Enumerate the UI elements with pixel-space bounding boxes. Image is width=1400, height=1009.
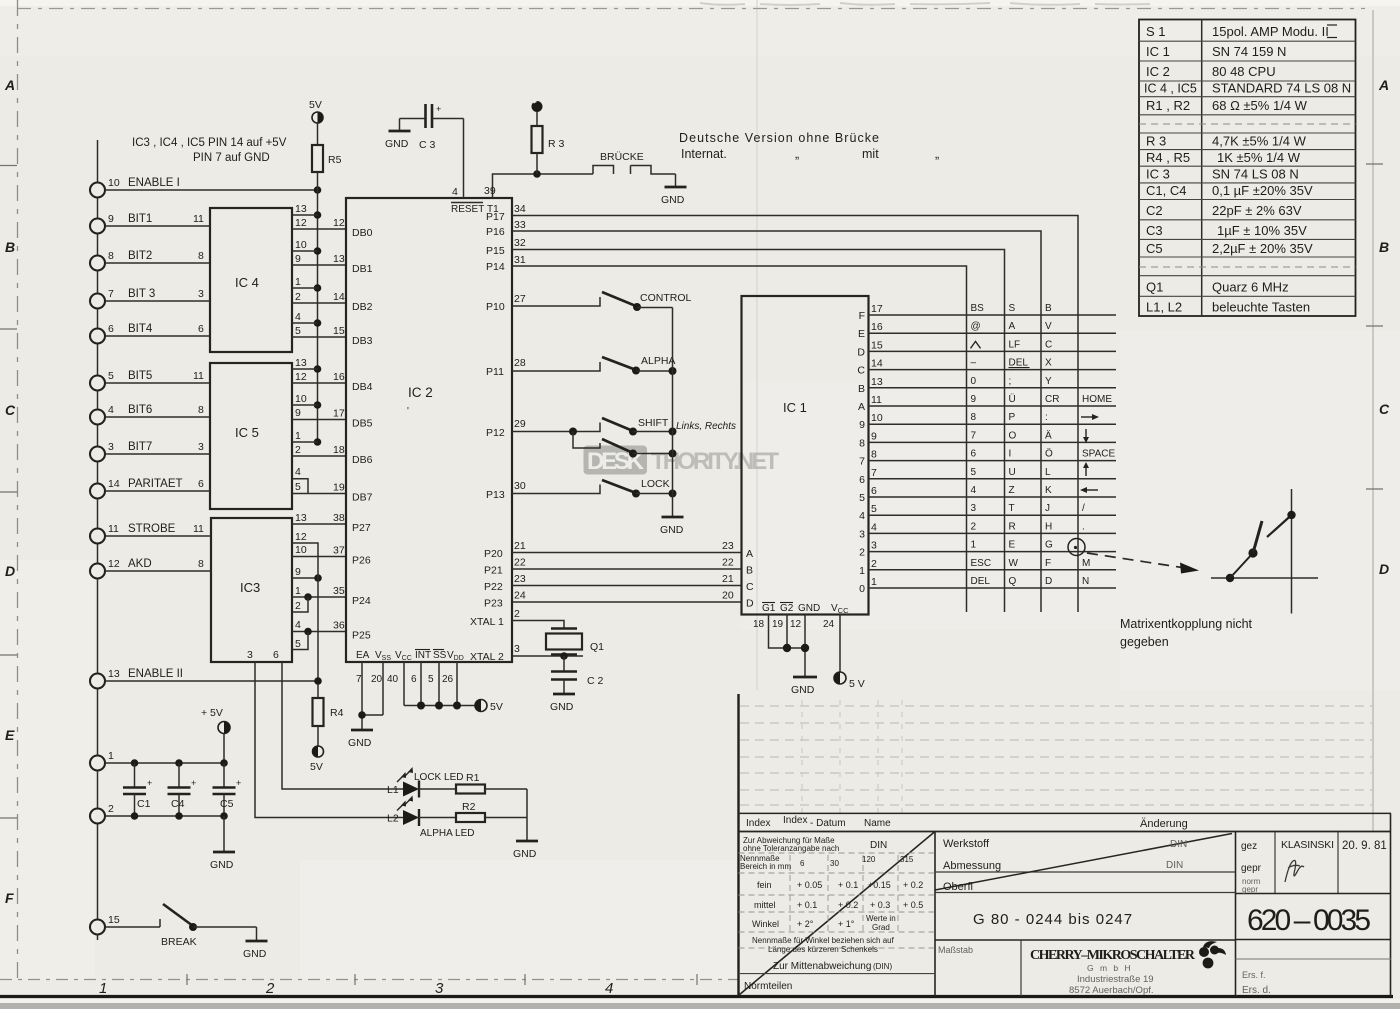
- svg-text:1: 1: [971, 540, 977, 551]
- right border faint line: [1372, 10, 1374, 832]
- ground below C5: [210, 816, 235, 871]
- svg-text:V: V: [1045, 321, 1052, 332]
- wire BIT7 to IC5 pin 3: [105, 441, 210, 454]
- part number 620-0035: [1247, 904, 1371, 937]
- svg-text:BIT1: BIT1: [128, 213, 152, 225]
- svg-text:24: 24: [514, 590, 526, 602]
- svg-text:S: S: [1009, 303, 1016, 314]
- ground after bruecke: [661, 174, 687, 206]
- svg-text:': ': [407, 406, 409, 417]
- svg-text:Y: Y: [1045, 376, 1052, 387]
- svg-text:BIT4: BIT4: [128, 323, 153, 335]
- svg-text:P16: P16: [486, 226, 505, 238]
- svg-text:8: 8: [198, 404, 204, 416]
- wire DB4: [292, 371, 346, 383]
- svg-text:8: 8: [198, 250, 204, 262]
- wire P14 to matrix col1: [486, 254, 967, 612]
- svg-text:1: 1: [295, 430, 301, 442]
- svg-text:6: 6: [871, 485, 877, 497]
- svg-text:1: 1: [871, 576, 877, 588]
- bruecke jumper: [593, 151, 676, 174]
- scanner edge strip: [0, 999, 1400, 1003]
- wire BIT5 to IC5 pin 11: [105, 370, 210, 383]
- svg-text:9: 9: [295, 253, 301, 265]
- faint top smudges: [700, 3, 1150, 5]
- wire BIT4 to IC4 pin 6: [105, 323, 210, 336]
- svg-text:Q1: Q1: [590, 641, 604, 653]
- svg-text:6: 6: [108, 323, 114, 335]
- wire BIT3 to IC4 pin 3: [105, 288, 210, 301]
- svg-text:Ö: Ö: [1045, 448, 1053, 460]
- svg-text:20: 20: [371, 674, 383, 685]
- ground below IC1: [791, 677, 817, 696]
- svg-text:GND: GND: [550, 701, 574, 713]
- svg-text:A: A: [1378, 77, 1389, 93]
- svg-text:3: 3: [198, 288, 204, 300]
- parts table: [1139, 20, 1356, 317]
- svg-text:C: C: [1379, 401, 1390, 417]
- svg-text:DIN: DIN: [1166, 860, 1183, 871]
- svg-text:C: C: [1045, 339, 1052, 350]
- wire P15 to matrix col2: [486, 237, 1005, 612]
- svg-text:IC 4: IC 4: [235, 275, 259, 290]
- svg-text:9: 9: [108, 213, 114, 225]
- svg-text:ENABLE II: ENABLE II: [128, 668, 183, 680]
- svg-text:8572 Auerbach/Opf.: 8572 Auerbach/Opf.: [1069, 985, 1154, 996]
- svg-text:23: 23: [514, 573, 526, 585]
- svg-text:14: 14: [871, 358, 883, 370]
- 5V terminal below R4: [310, 746, 324, 773]
- svg-text:P15: P15: [486, 245, 505, 257]
- svg-text:Änderung: Änderung: [1140, 818, 1188, 830]
- shift switch left: [486, 417, 677, 439]
- IC2 reset label: [451, 203, 499, 216]
- svg-text:L1, L2: L1, L2: [1146, 300, 1182, 315]
- svg-text:GND: GND: [661, 194, 685, 206]
- svg-text:18: 18: [753, 619, 765, 630]
- svg-text:P14: P14: [486, 261, 505, 273]
- svg-text:SPACE: SPACE: [1082, 449, 1115, 460]
- connector terminal circles S1: [90, 183, 105, 935]
- svg-text:Grad: Grad: [872, 923, 890, 932]
- svg-text:X: X: [1045, 358, 1052, 369]
- capacitor C1: [123, 763, 152, 816]
- svg-text:DIN: DIN: [1170, 839, 1187, 850]
- svg-text:- Datum: - Datum: [810, 818, 846, 829]
- svg-text:30: 30: [830, 859, 839, 868]
- note Deutsche Version text: [679, 131, 939, 161]
- wire BIT1 to IC4 pin 11: [105, 213, 210, 226]
- svg-text:P27: P27: [352, 522, 371, 534]
- svg-text:BIT 3: BIT 3: [128, 288, 155, 300]
- Vcc INT SS VDD 5V bus: [404, 662, 475, 710]
- svg-text:Abmessung: Abmessung: [943, 860, 1001, 872]
- svg-text:15pol. AMP Modu. II: 15pol. AMP Modu. II: [1212, 24, 1329, 39]
- svg-text:10: 10: [295, 544, 307, 556]
- svg-text:3: 3: [198, 441, 204, 453]
- svg-text:N: N: [1082, 576, 1089, 587]
- svg-text:PARITAET: PARITAET: [128, 478, 183, 490]
- resistor R4: [313, 698, 344, 746]
- svg-text:R5: R5: [328, 154, 342, 166]
- left zone boundary ticks: [0, 166, 17, 819]
- svg-text:17: 17: [333, 408, 345, 420]
- svg-text:HOME: HOME: [1082, 394, 1112, 405]
- svg-text:16: 16: [871, 321, 883, 333]
- svg-text:68 Ω ±5% 1/4 W: 68 Ω ±5% 1/4 W: [1212, 98, 1308, 113]
- svg-text:GND: GND: [513, 848, 537, 860]
- svg-text:2: 2: [971, 521, 977, 532]
- svg-text:IC 2: IC 2: [1146, 64, 1170, 79]
- svg-text:T: T: [1009, 503, 1015, 514]
- svg-text:DEL: DEL: [971, 576, 991, 587]
- svg-text:12: 12: [295, 217, 307, 229]
- svg-text:Zur Mittenabweichung: Zur Mittenabweichung: [773, 961, 871, 972]
- werkstoff column: [935, 813, 1391, 996]
- svg-text:+ 2°: + 2°: [797, 919, 814, 929]
- parts table value column text: [1212, 24, 1351, 315]
- svg-text:.: .: [1082, 521, 1085, 532]
- svg-text:8: 8: [108, 250, 114, 262]
- svg-text:mit: mit: [862, 147, 879, 161]
- svg-text:Winkel: Winkel: [752, 919, 779, 929]
- svg-text:10: 10: [295, 393, 307, 405]
- svg-text:G 80 - 0244 bis 0247: G 80 - 0244 bis 0247: [973, 911, 1133, 928]
- ground after break: [243, 927, 268, 960]
- svg-text:28: 28: [514, 357, 526, 369]
- svg-text:7: 7: [108, 288, 114, 300]
- svg-text:9: 9: [859, 419, 865, 431]
- svg-text:G2: G2: [780, 603, 794, 614]
- svg-text:33: 33: [514, 219, 526, 231]
- svg-text:7: 7: [859, 456, 865, 468]
- wire STROBE to IC3 pin 11: [105, 523, 211, 536]
- svg-text:DB4: DB4: [352, 381, 373, 393]
- key switch detail symbol: [1211, 489, 1318, 614]
- wire IC3 pin10 to P26: [292, 545, 346, 557]
- ENABLE rail to R4: [317, 550, 319, 698]
- svg-text:12: 12: [295, 531, 307, 543]
- svg-text:DEL: DEL: [1009, 358, 1029, 369]
- svg-text:D: D: [857, 346, 865, 358]
- svg-text:13: 13: [108, 668, 120, 680]
- svg-text:315: 315: [900, 855, 914, 864]
- svg-text:5 V: 5 V: [849, 678, 865, 690]
- scan crease: [756, 0, 758, 690]
- IC5 gate input stubs to +5V rail: [292, 369, 318, 494]
- signal name labels: [128, 177, 183, 680]
- svg-text:DB0: DB0: [352, 227, 373, 239]
- svg-text:DB5: DB5: [352, 418, 373, 430]
- parts table left column text: [1144, 24, 1197, 315]
- svg-text:;: ;: [1009, 376, 1012, 387]
- gez gepr column: [1236, 832, 1392, 997]
- svg-text:B: B: [858, 383, 865, 395]
- svg-text:29: 29: [514, 418, 526, 430]
- svg-text:Ers. d.: Ers. d.: [1242, 985, 1271, 996]
- svg-text:5V: 5V: [310, 761, 323, 773]
- matrix row pin numbers: [871, 303, 883, 588]
- svg-text:CONTROL: CONTROL: [640, 292, 691, 304]
- wire DB5: [292, 408, 346, 420]
- svg-text:G1: G1: [762, 603, 776, 614]
- wire IC3 pin9 stub to rail: [292, 574, 322, 582]
- svg-text:U: U: [1009, 467, 1016, 478]
- wire C3 to reset pin 4: [452, 119, 464, 199]
- overlines G1 G2: [762, 602, 793, 604]
- IC1 Vcc 5V wire: [834, 615, 865, 691]
- IC2 left inside labels: [352, 227, 373, 642]
- svg-text:I: I: [1009, 449, 1012, 460]
- note links rechts handwriting: [676, 421, 736, 432]
- svg-text:5: 5: [295, 325, 301, 337]
- svg-text:INT: INT: [415, 650, 431, 661]
- svg-text:3: 3: [108, 441, 114, 453]
- control switch: [486, 292, 691, 313]
- wire DB2: [292, 291, 346, 303]
- svg-text:4: 4: [295, 619, 301, 631]
- bottom scale dashed line: [0, 979, 738, 981]
- svg-text:12: 12: [108, 558, 120, 570]
- svg-text:S 1: S 1: [1146, 24, 1166, 39]
- svg-text:23: 23: [722, 540, 734, 552]
- svg-text:P11: P11: [486, 366, 504, 378]
- svg-text:L1: L1: [387, 784, 399, 796]
- svg-text:C2: C2: [1146, 203, 1163, 218]
- cap top rail node 1: [105, 759, 228, 767]
- svg-text:22: 22: [722, 557, 734, 569]
- svg-text:A: A: [4, 77, 15, 93]
- svg-text:38: 38: [333, 512, 345, 524]
- svg-text:P10: P10: [486, 301, 505, 313]
- svg-text:+ 0.1: + 0.1: [797, 900, 817, 910]
- cherry logo: [1199, 941, 1226, 968]
- dashed pointer arrow: [1087, 553, 1199, 574]
- svg-text::: :: [1045, 412, 1048, 423]
- capacitor C2: [551, 656, 604, 694]
- svg-text:gegeben: gegeben: [1120, 635, 1169, 649]
- svg-text:D: D: [746, 598, 754, 610]
- svg-text:E: E: [1009, 540, 1016, 551]
- svg-text:L2: L2: [387, 813, 399, 825]
- svg-text:22: 22: [514, 557, 526, 569]
- svg-text:+ 0.3: + 0.3: [870, 900, 890, 910]
- svg-text:R 3: R 3: [1146, 134, 1166, 149]
- wire BIT6 to IC5 pin 8: [105, 404, 210, 417]
- svg-text:30: 30: [514, 480, 526, 492]
- svg-text:9: 9: [295, 566, 301, 578]
- +5V rail down right side of IC4 IC5: [314, 190, 322, 446]
- xtal1 wire: [470, 608, 564, 628]
- svg-text:2: 2: [871, 558, 877, 570]
- ground at C3: [385, 119, 411, 151]
- svg-text:IC 2: IC 2: [408, 385, 433, 400]
- resistor R5: [312, 123, 342, 190]
- svg-text:3: 3: [514, 643, 520, 655]
- svg-text:C: C: [746, 581, 754, 593]
- svg-text:GND: GND: [243, 948, 267, 960]
- svg-text:Name: Name: [864, 818, 891, 829]
- svg-text:+: +: [436, 104, 441, 114]
- svg-text:3: 3: [971, 503, 977, 514]
- svg-text:SHIFT: SHIFT: [638, 417, 669, 429]
- svg-text:R4 , R5: R4 , R5: [1146, 150, 1190, 165]
- svg-text:7: 7: [971, 430, 977, 441]
- svg-text:R4: R4: [330, 707, 344, 719]
- matrix row wires: [869, 315, 1117, 588]
- svg-text:2,2µF ± 20% 35V: 2,2µF ± 20% 35V: [1212, 241, 1313, 256]
- svg-text:C: C: [857, 365, 865, 377]
- svg-text:+ 1°: + 1°: [838, 919, 855, 929]
- svg-text:7: 7: [356, 674, 362, 685]
- bottom thick border line: [0, 995, 1393, 998]
- svg-text:CR: CR: [1045, 394, 1059, 405]
- svg-text:18: 18: [333, 444, 345, 456]
- svg-text:P20: P20: [484, 548, 503, 560]
- wire P20 to IC1 A: [484, 540, 742, 560]
- circled matrix key node M: [1068, 539, 1085, 556]
- svg-text:1: 1: [295, 585, 301, 597]
- bottom zone ticks: [187, 974, 697, 985]
- svg-text:Q1: Q1: [1146, 280, 1163, 295]
- svg-text:10: 10: [295, 239, 307, 251]
- op IC1 box: [742, 296, 869, 615]
- svg-text:ALPHA LED: ALPHA LED: [420, 828, 474, 839]
- svg-text:Maßstab: Maßstab: [938, 945, 973, 955]
- ground below EA: [348, 730, 373, 749]
- wire P23 to IC1 D: [484, 590, 742, 610]
- svg-text:2: 2: [295, 444, 301, 456]
- svg-text:P23: P23: [484, 598, 503, 610]
- IC4 gate input stubs to +5V rail: [292, 215, 318, 323]
- resistor R3: [532, 101, 565, 174]
- svg-text:Q: Q: [1009, 576, 1017, 587]
- svg-text:B: B: [1379, 239, 1389, 255]
- svg-text:fein: fein: [757, 880, 772, 890]
- svg-text:8: 8: [971, 412, 977, 423]
- svg-text:F: F: [1045, 558, 1051, 569]
- svg-text:Ers. f.: Ers. f.: [1242, 970, 1266, 980]
- svg-text:3: 3: [871, 540, 877, 552]
- svg-text:BRÜCKE: BRÜCKE: [600, 151, 644, 163]
- note Matrixentkopplung text: [1120, 617, 1253, 649]
- svg-text:13: 13: [333, 253, 345, 265]
- svg-text:C: C: [5, 402, 16, 418]
- svg-text:0,1 µF ±20% 35V: 0,1 µF ±20% 35V: [1212, 183, 1313, 198]
- svg-text:IC 4 , IC5: IC 4 , IC5: [1144, 82, 1197, 96]
- svg-text:620 – 0035: 620 – 0035: [1247, 904, 1371, 937]
- svg-text:6: 6: [859, 474, 865, 486]
- +5V terminal above C-caps: [201, 707, 230, 763]
- svg-text:19: 19: [333, 482, 345, 494]
- svg-text:4: 4: [859, 510, 865, 522]
- svg-text:P24: P24: [352, 595, 371, 607]
- svg-text:B: B: [5, 239, 15, 255]
- svg-text:13: 13: [295, 203, 307, 215]
- svg-text:4,7K ±5% 1/4 W: 4,7K ±5% 1/4 W: [1212, 134, 1307, 149]
- svg-text:Oberfl: Oberfl: [943, 881, 973, 893]
- svg-text:P13: P13: [486, 489, 505, 501]
- svg-text:SS: SS: [433, 650, 447, 661]
- IC2 bottom pin numbers: [356, 674, 454, 685]
- svg-text:14: 14: [333, 291, 345, 303]
- svg-text:IC 1: IC 1: [783, 400, 807, 415]
- svg-text:DIN: DIN: [870, 840, 887, 851]
- svg-text:3: 3: [859, 528, 865, 540]
- svg-text:G: G: [1045, 540, 1053, 551]
- wire DB7: [292, 482, 346, 494]
- svg-text:A: A: [1009, 321, 1016, 332]
- svg-text:mittel: mittel: [754, 900, 776, 910]
- svg-text:Ä: Ä: [1045, 429, 1052, 441]
- svg-text:4: 4: [871, 521, 877, 533]
- svg-text:15: 15: [871, 339, 883, 351]
- svg-text:5: 5: [428, 674, 434, 685]
- wire IC3 pin2 loop: [292, 597, 308, 612]
- svg-text:P: P: [1009, 412, 1016, 423]
- svg-text:0: 0: [971, 376, 977, 387]
- IC2 bottom pin labels: [356, 650, 464, 662]
- watermark deskthority: [584, 446, 780, 476]
- svg-text:1: 1: [108, 750, 114, 762]
- svg-text:B: B: [1045, 303, 1052, 314]
- svg-text:6: 6: [971, 449, 977, 460]
- index row text: [746, 815, 1188, 830]
- svg-text:PIN 7 auf GND: PIN 7 auf GND: [193, 152, 270, 164]
- svg-text:Z: Z: [1009, 485, 1015, 496]
- svg-text:IC 1: IC 1: [1146, 44, 1170, 59]
- svg-text:Bereich in mm: Bereich in mm: [740, 862, 791, 871]
- drawing number G80: [973, 911, 1133, 928]
- IC5 box: [210, 363, 292, 509]
- svg-text:AKD: AKD: [128, 558, 152, 570]
- svg-text:D: D: [1379, 561, 1389, 577]
- werkstoff labels: [938, 838, 1187, 955]
- svg-text:R2: R2: [462, 801, 476, 813]
- svg-text:17: 17: [871, 303, 883, 315]
- svg-text:R1 , R2: R1 , R2: [1146, 98, 1190, 113]
- svg-text:+: +: [147, 778, 152, 788]
- svg-text:Industriestraße 19: Industriestraße 19: [1077, 974, 1154, 985]
- wire DB1: [292, 253, 346, 265]
- svg-text:Werte in: Werte in: [866, 914, 896, 923]
- svg-text:11: 11: [193, 523, 204, 535]
- svg-text:4: 4: [452, 186, 458, 198]
- svg-text:P25: P25: [352, 630, 371, 642]
- IC4 right pin numbers: [295, 203, 307, 337]
- svg-text:P17: P17: [486, 211, 505, 223]
- svg-text:C3: C3: [1146, 223, 1163, 238]
- svg-text:6: 6: [198, 323, 204, 335]
- svg-text:5: 5: [971, 467, 977, 478]
- svg-text:ALPHA: ALPHA: [641, 355, 675, 367]
- wire DB6: [292, 444, 346, 456]
- svg-text:1K ±5% 1/4 W: 1K ±5% 1/4 W: [1217, 150, 1301, 165]
- svg-text:12: 12: [790, 619, 802, 630]
- svg-text:beleuchte Tasten: beleuchte Tasten: [1212, 300, 1310, 315]
- svg-text:10: 10: [871, 412, 883, 424]
- svg-text:W: W: [1009, 558, 1019, 569]
- svg-text:+ 0.2: + 0.2: [838, 900, 858, 910]
- svg-text:16: 16: [333, 371, 345, 383]
- svg-text:3: 3: [247, 649, 253, 661]
- lock switch: [486, 478, 677, 501]
- switch common rail to ground: [660, 308, 684, 537]
- svg-text:gepr: gepr: [1241, 863, 1262, 874]
- svg-text:gepr: gepr: [1242, 885, 1258, 894]
- svg-text:6: 6: [800, 859, 805, 868]
- svg-text:C 2: C 2: [587, 675, 604, 687]
